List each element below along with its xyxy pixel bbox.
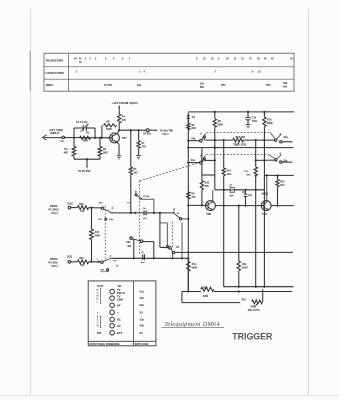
- svg-text:3K9: 3K9: [191, 128, 196, 130]
- diode D1: [187, 115, 190, 118]
- svg-text:400R: 400R: [106, 128, 112, 131]
- vertical x238.8 with R12: [238, 206, 240, 262]
- TR3 emitter wire east: [271, 205, 294, 207]
- svg-text:C: C: [97, 292, 99, 294]
- svg-text:R12: R12: [242, 264, 247, 266]
- resistor R3: [73, 138, 75, 147]
- svg-text:4: 4: [144, 71, 146, 74]
- capacitor C8: [245, 190, 247, 194]
- svg-text:6: 6: [122, 59, 124, 61]
- rail A x255.7: [255, 140, 257, 167]
- svg-text:1u0: 1u0: [248, 195, 253, 197]
- switch S4 EXT contact: [101, 261, 103, 263]
- rail R14 x223.7: [223, 140, 225, 168]
- svg-text:S4e: S4e: [283, 85, 288, 88]
- svg-text:12: 12: [211, 59, 214, 61]
- svg-text:4M7: 4M7: [64, 152, 69, 155]
- svg-text:S1a: S1a: [140, 291, 145, 294]
- svg-text:20k: 20k: [200, 83, 205, 85]
- svg-text:C7: C7: [229, 185, 233, 187]
- resistor R12 600R: [237, 261, 240, 270]
- svg-text:C6: C6: [141, 252, 145, 254]
- svg-text:SK1: SK1: [60, 141, 65, 143]
- svg-text:IN: IN: [118, 284, 121, 288]
- bottom feed wire1 with R30: [182, 291, 201, 293]
- component index table: [44, 53, 294, 91]
- transistor TR3: [261, 201, 271, 211]
- svg-text:15K: 15K: [80, 211, 85, 213]
- svg-text:TRIG LEVEL: TRIG LEVEL: [233, 144, 247, 146]
- svg-text:S3b: S3b: [126, 242, 131, 244]
- switch S2 contact mid: [173, 208, 174, 210]
- svg-text:CAPACITORS: CAPACITORS: [46, 71, 65, 75]
- svg-text:10: 10: [203, 59, 206, 61]
- horizontal wire y175 left: [202, 174, 215, 176]
- resistor R9 on left rail: [187, 192, 190, 199]
- svg-text:TO PC 85/9: TO PC 85/9: [78, 171, 91, 173]
- svg-text:27K: 27K: [142, 146, 147, 148]
- svg-text:16: 16: [290, 59, 293, 61]
- capacitor C4: [143, 211, 145, 215]
- svg-text:C: C: [97, 320, 99, 322]
- mechanical link dashed diagonal: [140, 161, 205, 181]
- wire S3b to bend: [143, 241, 154, 243]
- legend box outer: [88, 281, 156, 346]
- svg-text:5: 5: [90, 59, 92, 61]
- svg-text:FROM: FROM: [50, 205, 57, 208]
- transistor TR1: [110, 133, 120, 143]
- svg-text:PC: PC: [127, 202, 130, 204]
- switch S4b contact on rail: [187, 140, 189, 142]
- svg-text:HF S2a: HF S2a: [143, 134, 151, 136]
- svg-text:1K5: 1K5: [133, 173, 138, 175]
- resistor R45 470R: [91, 208, 93, 229]
- svg-text:S3a: S3a: [140, 318, 145, 321]
- svg-text:S3: S3: [140, 311, 144, 314]
- svg-text:L: L: [97, 301, 99, 303]
- svg-text:9: 9: [252, 72, 254, 74]
- resistor R30 2200: [201, 287, 214, 291]
- svg-text:S4a: S4a: [109, 218, 113, 221]
- resistor R8 820R rail: [214, 112, 216, 119]
- svg-text:TRIGGER: TRIGGER: [232, 331, 273, 341]
- svg-text:F: F: [97, 259, 99, 261]
- svg-text:R1: R1: [86, 132, 90, 134]
- svg-text:560: 560: [205, 186, 210, 188]
- ground under TR1: [117, 155, 122, 157]
- svg-text:SO/3: SO/3: [68, 204, 74, 206]
- resistor R2: [99, 138, 101, 147]
- svg-text:S3b: S3b: [140, 325, 145, 328]
- svg-text:43: 43: [257, 58, 260, 61]
- svg-text:C2 4.5-47p: C2 4.5-47p: [76, 121, 88, 124]
- svg-text:DC: DC: [117, 317, 121, 321]
- svg-text:9: 9: [218, 59, 220, 61]
- horizontal wire y175.4 right: [264, 174, 293, 176]
- rail B lower segment: [263, 175, 265, 286]
- svg-text:EXT: EXT: [117, 331, 123, 335]
- ground under C10: [246, 124, 251, 126]
- capacitor C10 with ground: [247, 112, 249, 118]
- svg-text:INPUT: INPUT: [51, 131, 60, 135]
- block bottom wire y286.7: [224, 286, 294, 288]
- svg-text:680R: 680R: [267, 123, 273, 125]
- wire trig level y140: [204, 139, 233, 141]
- svg-text:155: 155: [191, 197, 196, 199]
- svg-text:M: M: [97, 295, 99, 297]
- TR1 collector to +12V rail: [117, 130, 119, 133]
- svg-text:820R: 820R: [217, 125, 223, 127]
- svg-text:R2: R2: [103, 149, 107, 151]
- svg-text:HF: HF: [114, 260, 118, 262]
- svg-text:27K: 27K: [122, 120, 127, 122]
- switch S2b contact: [135, 191, 137, 193]
- svg-text:A: A: [97, 316, 99, 319]
- svg-text:R14: R14: [227, 170, 232, 173]
- svg-text:TR2: TR2: [206, 212, 211, 216]
- svg-text:R9: R9: [191, 194, 195, 196]
- svg-text:S3a: S3a: [191, 160, 196, 162]
- svg-text:SET AUTO: SET AUTO: [248, 309, 260, 312]
- electrolytic C7 4u0: [230, 188, 234, 193]
- svg-text:S4b: S4b: [283, 82, 288, 85]
- svg-text:~: ~: [117, 311, 119, 315]
- resistor R5 1K5: [130, 130, 132, 167]
- capacitor C2 trimmer: [73, 128, 75, 138]
- svg-text:3: 3: [139, 72, 141, 74]
- svg-text:FIELD: FIELD: [117, 291, 125, 295]
- switch S4c contact lower right: [169, 247, 172, 250]
- wire y160 segment left: [204, 159, 215, 161]
- svg-text:R8: R8: [218, 121, 222, 123]
- svg-text:600R: 600R: [242, 267, 248, 269]
- resistor R4 27K: [118, 114, 121, 123]
- page border bottom: [0, 395, 339, 397]
- switch S3a-right contact: [275, 159, 277, 161]
- switch S3a-left contact on rail: [187, 162, 189, 164]
- svg-text:30: 30: [226, 59, 229, 61]
- resistor R13 3K6 on rail A: [254, 167, 257, 176]
- svg-text:80k: 80k: [200, 87, 205, 89]
- svg-text:LINE: LINE: [117, 298, 123, 302]
- resistor R16 680R on rail B: [263, 112, 265, 117]
- svg-text:2: 2: [76, 72, 78, 74]
- svg-text:R30: R30: [203, 287, 208, 289]
- svg-text:R16: R16: [267, 120, 272, 122]
- svg-text:Telequipment DM64: Telequipment DM64: [164, 321, 220, 328]
- TR1 emitter to ground: [117, 142, 119, 144]
- resistor R1: [80, 136, 91, 139]
- wire branch down from C4 line: [159, 213, 161, 248]
- svg-text:45: 45: [264, 58, 267, 61]
- svg-text:FROM: FROM: [50, 258, 57, 261]
- svg-text:AC: AC: [117, 324, 121, 328]
- wire lower coupling line: [110, 257, 188, 259]
- resistor R14 1K3: [222, 168, 225, 176]
- svg-text:EXT: EXT: [100, 270, 105, 272]
- svg-text:2M2: 2M2: [103, 153, 108, 155]
- potentiometer RV1 SET AUTO: [252, 300, 263, 304]
- wire trigger out east y252: [174, 251, 292, 253]
- svg-text:FIG 4: FIG 4: [163, 133, 170, 136]
- svg-text:11: 11: [234, 59, 237, 61]
- svg-text:41: 41: [79, 58, 82, 61]
- svg-text:S4: S4: [176, 246, 179, 249]
- page border left: [29, 9, 31, 396]
- svg-text:100K: 100K: [83, 141, 89, 143]
- svg-text:INT: INT: [99, 203, 103, 205]
- switch linkage dashed vertical right: [171, 222, 173, 248]
- svg-text:2200: 2200: [203, 296, 209, 298]
- svg-text:40: 40: [74, 58, 77, 61]
- svg-text:MISC: MISC: [46, 83, 54, 87]
- svg-text:46: 46: [271, 58, 274, 61]
- wire y160 segment right: [256, 159, 275, 161]
- capacitor C6: [142, 254, 144, 259]
- output stub to PC 85/9: [86, 159, 88, 167]
- bias resistor R8 400R: [101, 125, 103, 138]
- svg-text:S4: S4: [116, 264, 119, 267]
- resistor R6 3K9: [187, 123, 190, 129]
- wire2 bottom with RV1: [181, 292, 183, 303]
- arrow TO S4a TR8: [149, 129, 157, 131]
- svg-text:INT: INT: [97, 331, 102, 335]
- svg-text:1K3: 1K3: [227, 174, 232, 176]
- svg-text:8: 8: [196, 59, 198, 61]
- svg-text:R5: R5: [133, 169, 137, 171]
- svg-text:u15: u15: [143, 218, 148, 220]
- svg-text:S1b: S1b: [140, 297, 145, 300]
- svg-text:R4: R4: [122, 115, 126, 118]
- TR2 base wire: [188, 204, 208, 206]
- svg-text:S2a: S2a: [140, 304, 145, 307]
- top rail horizontal: [188, 111, 294, 113]
- svg-text:1: 1: [85, 59, 87, 61]
- svg-text:R48: R48: [79, 203, 84, 206]
- svg-text:3K6: 3K6: [246, 174, 251, 176]
- svg-text:S4b: S4b: [191, 137, 196, 140]
- svg-text:HF: HF: [117, 303, 121, 307]
- svg-text:R15: R15: [280, 182, 285, 184]
- svg-text:10: 10: [258, 72, 261, 74]
- svg-text:+12V FROM XQ/24: +12V FROM XQ/24: [112, 101, 138, 105]
- svg-text:7: 7: [215, 72, 217, 74]
- svg-text:R11: R11: [192, 264, 197, 266]
- TR2 output wire east: [215, 205, 264, 207]
- svg-text:R: R: [97, 298, 99, 300]
- transistor TR2: [206, 201, 216, 211]
- left rail vertical: [187, 113, 189, 292]
- svg-text:FIG.4: FIG.4: [52, 212, 59, 215]
- svg-text:4u0: 4u0: [141, 261, 146, 264]
- svg-text:R6: R6: [192, 125, 196, 127]
- wire bottom of input divider: [74, 158, 100, 160]
- svg-text:420: 420: [127, 245, 132, 248]
- svg-text:1K3: 1K3: [280, 185, 285, 187]
- svg-text:7: 7: [129, 59, 131, 61]
- potentiometer RV2 TRIG LEVEL: [233, 138, 244, 142]
- svg-text:N: N: [97, 289, 99, 291]
- svg-text:100n: 100n: [252, 121, 258, 123]
- svg-text:RV2 2K2: RV2 2K2: [236, 137, 246, 139]
- svg-text:SO/3: SO/3: [67, 257, 73, 259]
- svg-text:PC 85/10: PC 85/10: [49, 208, 60, 211]
- riser R10 top: [201, 148, 203, 175]
- svg-text:TR3: TR3: [266, 85, 271, 87]
- connector circle HF S2a: [146, 129, 149, 132]
- legend box divider vertical: [133, 281, 135, 346]
- switch linkage dashed vertical center: [139, 181, 141, 255]
- resistor R10 560: [201, 175, 203, 181]
- gang dash to S2a: [206, 132, 270, 134]
- svg-text:TR1: TR1: [122, 136, 127, 140]
- svg-text:C4: C4: [143, 207, 147, 210]
- EXT TRIG input connector: [42, 135, 46, 141]
- gang dash to S3a-right: [206, 154, 269, 156]
- svg-text:K6e: K6e: [137, 85, 142, 87]
- svg-text:EXT: EXT: [98, 219, 103, 221]
- svg-text:R8: R8: [107, 122, 111, 124]
- svg-text:PC 85/9: PC 85/9: [49, 261, 59, 264]
- svg-text:S4: S4: [140, 332, 144, 335]
- svg-text:+: +: [97, 322, 99, 324]
- svg-text:4u0: 4u0: [229, 195, 234, 198]
- svg-text:S4 TR1: S4 TR1: [104, 84, 113, 87]
- resistor R15 1K3: [277, 175, 279, 179]
- wire input to base node: [65, 137, 74, 139]
- svg-text:3: 3: [105, 59, 107, 61]
- svg-text:42: 42: [79, 61, 82, 64]
- svg-text:SWITCH REF: SWITCH REF: [135, 344, 150, 346]
- svg-text:B S2b: B S2b: [143, 196, 150, 198]
- wire TR1 output east: [119, 129, 146, 131]
- resistor R7 27K to ground: [138, 130, 140, 140]
- wire S4a to C4: [109, 212, 111, 213]
- svg-text:FRONT PANEL NUMBERING: FRONT PANEL NUMBERING: [89, 343, 120, 346]
- svg-text:FIG.4: FIG.4: [52, 265, 59, 268]
- svg-text:R13: R13: [244, 171, 249, 173]
- legend circles: [110, 289, 115, 294]
- wire y147.6 rail to right edge: [187, 147, 189, 149]
- svg-text:R43: R43: [79, 257, 84, 260]
- svg-text:RV1: RV1: [242, 300, 247, 302]
- svg-text:14: 14: [249, 58, 252, 61]
- svg-text:470R: 470R: [94, 235, 100, 238]
- wire y189.8 TR2 collector rail: [215, 189, 265, 191]
- svg-text:4: 4: [113, 58, 115, 61]
- svg-text:+: +: [97, 311, 99, 314]
- svg-text:2: 2: [95, 59, 97, 61]
- resistor R48 15K: [77, 206, 88, 210]
- svg-text:C8: C8: [242, 192, 246, 194]
- svg-text:C10: C10: [252, 117, 257, 119]
- svg-text:D1: D1: [192, 116, 196, 119]
- svg-text:R3: R3: [65, 149, 69, 151]
- svg-text:15K: 15K: [80, 265, 85, 267]
- socket SK1: [62, 136, 65, 139]
- svg-text:R10: R10: [205, 182, 210, 184]
- resistor R43 15K: [77, 260, 88, 264]
- svg-text:13: 13: [241, 59, 244, 61]
- switch S2a contact: [275, 139, 277, 141]
- svg-text:TR2: TR2: [221, 85, 226, 87]
- resistor R11 600R on left rail: [187, 258, 189, 261]
- ground under R7: [136, 155, 141, 157]
- legend box strip line: [88, 340, 156, 342]
- svg-text:OUT: OUT: [97, 284, 103, 288]
- svg-text:O: O: [97, 325, 99, 327]
- wire branch second prong: [160, 222, 167, 224]
- switch linkage dashed vertical S4: [104, 206, 106, 261]
- svg-text:RESISTORS: RESISTORS: [46, 58, 63, 62]
- svg-text:S2: S2: [177, 213, 180, 215]
- svg-text:R45: R45: [95, 231, 100, 234]
- svg-text:600R: 600R: [192, 268, 198, 270]
- page border right: [308, 9, 310, 396]
- svg-text:S2a: S2a: [284, 137, 289, 139]
- svg-text:R7: R7: [142, 143, 146, 145]
